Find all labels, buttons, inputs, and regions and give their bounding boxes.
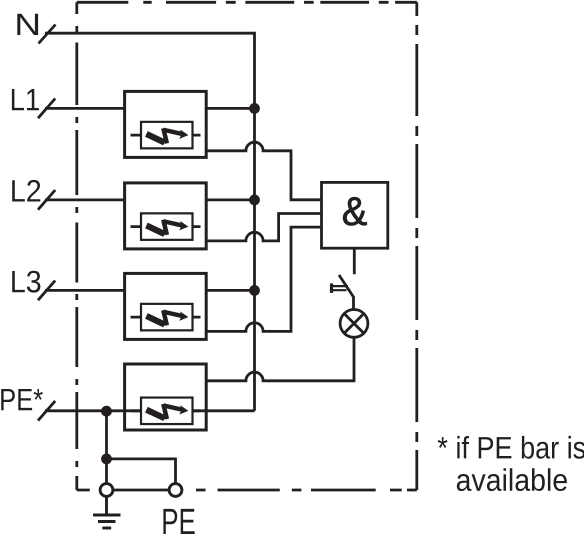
wire L3 input <box>45 289 125 292</box>
terminal slash L1 <box>38 99 55 119</box>
wire L3 monitor output with hop over bus <box>206 227 321 331</box>
SPD L2 arrester symbol <box>131 213 201 240</box>
wire L2 input <box>45 198 125 201</box>
junction dot L3/bus <box>249 285 260 296</box>
terminal slash L2 <box>38 190 55 210</box>
terminal circle earth <box>100 484 113 497</box>
terminal slash PE* <box>38 401 55 421</box>
enclosure dash-dot border bottom <box>77 489 417 492</box>
label PE* <box>1 389 43 410</box>
SPD L1 arrester symbol <box>131 122 201 149</box>
wire L2 monitor output with hop over bus <box>206 214 321 241</box>
wire AND gate output <box>353 248 356 274</box>
AND gate symbol & <box>343 197 367 225</box>
wire L1 output to bus <box>206 107 254 110</box>
indicator lamp cross <box>344 314 364 334</box>
enclosure dash-dot border right <box>415 2 418 490</box>
SPD L1 outer box <box>125 91 207 157</box>
junction dot L2/bus <box>249 195 260 206</box>
SPD PE arrester symbol <box>131 398 201 425</box>
junction dot earth branch <box>101 454 112 465</box>
annotation note line 2 <box>457 468 567 491</box>
wire L2 output to bus <box>206 198 254 201</box>
label N <box>17 14 38 35</box>
terminal circle PE <box>169 484 182 497</box>
label PE terminal <box>163 509 194 534</box>
terminal slash N <box>39 25 56 44</box>
switch manual actuator links <box>332 286 349 290</box>
wire N horizontal <box>45 32 255 35</box>
SPD PE outer box <box>125 364 207 430</box>
enclosure dash-dot border left <box>75 2 78 490</box>
wire earth vertical from PE junction <box>105 411 108 484</box>
junction dot PE*/earth branch <box>101 406 112 417</box>
ground symbol <box>93 496 121 528</box>
SPD L3 outer box <box>125 273 207 339</box>
wire branch to PE terminal <box>107 459 176 484</box>
wire PE monitor output with hop over bus to lamp <box>206 337 354 380</box>
SPD L3 arrester symbol <box>131 304 201 331</box>
wire between terminals <box>107 489 176 492</box>
terminal slash L3 <box>38 281 55 301</box>
annotation note line 1 <box>438 436 584 459</box>
SPD L2 outer box <box>125 183 207 249</box>
wire PE right side to bus end <box>193 409 255 412</box>
wire L3 output to bus <box>206 289 254 292</box>
AND gate box <box>322 182 388 248</box>
junction dot L1/bus <box>249 103 260 114</box>
wire L1 monitor output with hop over bus <box>206 142 321 200</box>
label L1 <box>12 89 39 110</box>
label L3 <box>12 271 40 293</box>
wire N/PE bus vertical <box>253 32 256 411</box>
switch manual actuator bar <box>330 283 333 293</box>
enclosure dash-dot border top <box>77 1 417 4</box>
switch contact blade <box>339 275 354 310</box>
wire L1 input <box>45 107 125 110</box>
indicator lamp circle <box>340 310 368 338</box>
wire PE* input through to arrester <box>45 409 141 412</box>
label L2 <box>12 180 40 202</box>
